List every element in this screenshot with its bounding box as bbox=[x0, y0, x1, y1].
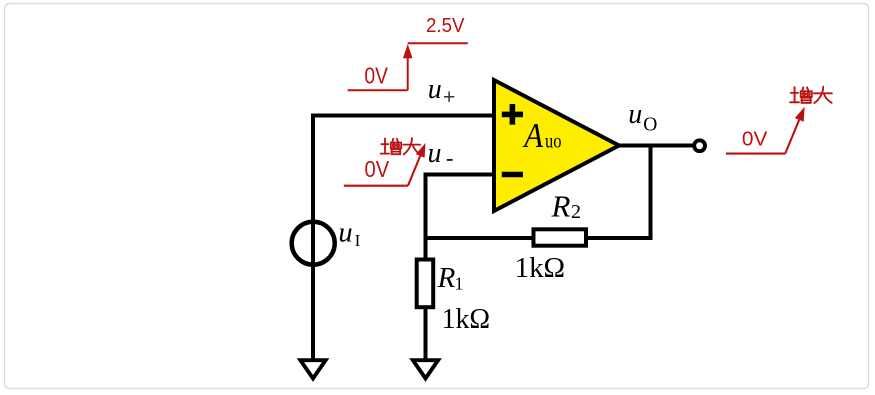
svg-text:R: R bbox=[437, 262, 456, 294]
ground (left, under source uI) bbox=[300, 360, 325, 378]
annotation: u- rises (arrow) from 0V bbox=[344, 156, 420, 186]
resistor R2 bbox=[534, 229, 587, 245]
wire: output horizontal bbox=[618, 144, 695, 148]
annotation: input step at u+ rises 0V to 2.5V bbox=[348, 43, 468, 90]
svg-text:uo: uo bbox=[545, 131, 562, 153]
svg-text:A: A bbox=[523, 116, 544, 155]
op-amp U1 body bbox=[494, 80, 619, 211]
wire: non-inverting input horizontal (u+ node) bbox=[311, 114, 496, 118]
svg-text:0V: 0V bbox=[364, 62, 388, 88]
ground (right, under R1) bbox=[413, 360, 438, 378]
wire: inverting node vertical through R1 to ground bbox=[424, 173, 428, 362]
output terminal bbox=[694, 140, 705, 151]
svg-text:1kΩ: 1kΩ bbox=[515, 253, 566, 284]
wire: feedback vertical from output node bbox=[649, 144, 653, 241]
svg-text:I: I bbox=[355, 231, 361, 250]
svg-text:u: u bbox=[428, 74, 442, 105]
resistor R1 bbox=[417, 260, 434, 308]
svg-text:1kΩ: 1kΩ bbox=[442, 304, 491, 335]
op-amp inverting input marker (-) bbox=[502, 172, 523, 178]
svg-text:u: u bbox=[628, 99, 642, 130]
svg-text:u: u bbox=[338, 217, 352, 248]
wire: left vertical from u+ node through source uI to ground bbox=[311, 114, 315, 362]
annotation: output uO rises (arrow) from 0V bbox=[726, 120, 799, 154]
svg-text:0V: 0V bbox=[742, 127, 768, 150]
svg-text:2.5V: 2.5V bbox=[426, 15, 465, 37]
label 增大 (u- increases) bbox=[381, 138, 421, 154]
svg-text:u: u bbox=[428, 138, 442, 169]
svg-text:2: 2 bbox=[571, 201, 581, 223]
op-amp non-inverting input marker (+) bbox=[502, 104, 523, 125]
voltage source uI bbox=[292, 222, 335, 265]
svg-text:R: R bbox=[551, 189, 571, 224]
wire: inverting input horizontal (u- node) bbox=[426, 173, 497, 177]
label 增大 (uO increases) bbox=[790, 87, 832, 103]
svg-text:0V: 0V bbox=[365, 156, 390, 182]
svg-text:O: O bbox=[643, 114, 657, 135]
wire: feedback horizontal through R2 bbox=[424, 236, 651, 240]
svg-text:1: 1 bbox=[455, 274, 464, 294]
